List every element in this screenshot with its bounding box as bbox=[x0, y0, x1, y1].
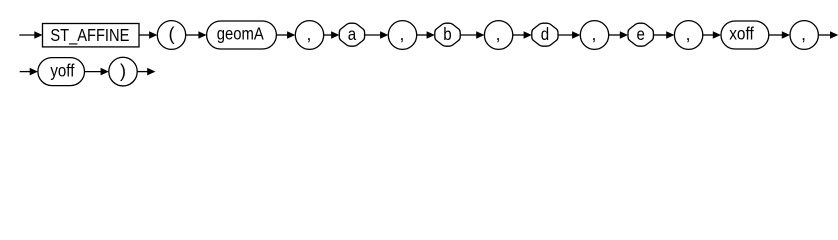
arrow into comma 3 bbox=[476, 31, 484, 39]
arrow into xoff bbox=[713, 31, 721, 39]
parameter xoff bbox=[721, 21, 769, 49]
wire after e bbox=[653, 34, 668, 36]
arrow into e bbox=[620, 31, 628, 39]
literal ( bbox=[157, 21, 185, 50]
svg-text:): ) bbox=[120, 61, 126, 81]
wire after ST_AFFINE bbox=[139, 34, 151, 36]
arrow into ( bbox=[149, 31, 157, 39]
svg-text:,: , bbox=[399, 24, 404, 44]
terminal box ST_AFFINE bbox=[43, 24, 140, 47]
svg-text:d: d bbox=[541, 24, 549, 44]
wire after comma 1 bbox=[324, 34, 333, 36]
svg-text:xoff: xoff bbox=[729, 24, 754, 44]
svg-text:,: , bbox=[306, 24, 311, 44]
parameter d bbox=[532, 23, 558, 46]
arrow into comma 5 bbox=[666, 31, 674, 39]
literal comma 4 bbox=[580, 21, 608, 50]
wire after comma 5 bbox=[703, 34, 715, 36]
arrow into geomA bbox=[198, 31, 206, 39]
svg-text:,: , bbox=[591, 24, 596, 44]
wire after ) bbox=[137, 71, 149, 73]
arrow into comma 1 bbox=[287, 31, 295, 39]
arrow into yoff bbox=[30, 68, 38, 76]
svg-text:ST_AFFINE: ST_AFFINE bbox=[50, 25, 129, 45]
arrow into d bbox=[524, 31, 532, 39]
svg-text:geomA: geomA bbox=[217, 24, 264, 44]
wire after comma 4 bbox=[609, 34, 622, 36]
arrow into ST_AFFINE bbox=[34, 31, 42, 39]
parameter geomA bbox=[207, 21, 277, 49]
arrow into a bbox=[331, 31, 339, 39]
svg-text:b: b bbox=[443, 24, 451, 44]
wire after d bbox=[558, 34, 574, 36]
arrow into b bbox=[427, 31, 435, 39]
parameter e bbox=[628, 23, 653, 46]
svg-text:,: , bbox=[801, 24, 806, 44]
wire after ( bbox=[186, 34, 201, 36]
wire after b bbox=[460, 34, 478, 36]
svg-text:(: ( bbox=[168, 24, 174, 44]
svg-text:e: e bbox=[637, 24, 645, 44]
literal comma 3 bbox=[484, 21, 512, 50]
diagram end arrow bbox=[147, 68, 155, 76]
wire after geomA bbox=[276, 34, 289, 36]
parameter yoff bbox=[38, 58, 85, 86]
parameter b bbox=[435, 23, 460, 46]
parameter a bbox=[339, 23, 364, 46]
literal comma 1 bbox=[295, 21, 323, 50]
wire after a bbox=[365, 34, 382, 36]
svg-text:,: , bbox=[496, 24, 501, 44]
wire: start line row 1 bbox=[19, 34, 36, 36]
literal comma 6 bbox=[790, 21, 818, 50]
wire after yoff bbox=[85, 71, 103, 73]
arrow into comma 6 bbox=[782, 31, 790, 39]
row 1 continuation arrow bbox=[830, 31, 838, 39]
svg-text:a: a bbox=[348, 24, 357, 44]
literal comma 2 bbox=[388, 21, 416, 50]
wire to row end bbox=[818, 34, 831, 36]
literal ) bbox=[109, 57, 137, 86]
literal comma 5 bbox=[674, 21, 702, 50]
wire after comma 2 bbox=[417, 34, 429, 36]
arrow into ) bbox=[101, 68, 109, 76]
arrow into comma 2 bbox=[380, 31, 388, 39]
arrow into comma 4 bbox=[572, 31, 580, 39]
wire after comma 3 bbox=[513, 34, 526, 36]
wire after xoff bbox=[769, 34, 784, 36]
svg-text:yoff: yoff bbox=[50, 60, 74, 80]
wire: start line row 2 bbox=[20, 71, 32, 73]
svg-text:,: , bbox=[686, 24, 691, 44]
